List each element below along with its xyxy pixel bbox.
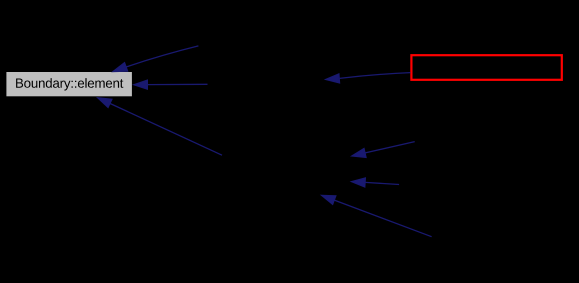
- edge7: [321, 195, 431, 237]
- node Boundary::element: [6, 72, 131, 96]
- node red (truncated): [411, 55, 561, 80]
- edge6: [351, 178, 399, 187]
- edge3: [97, 98, 222, 156]
- edge2: [134, 80, 208, 89]
- edge1: [113, 46, 199, 72]
- edge5: [352, 142, 415, 158]
- edge4: [325, 73, 410, 84]
